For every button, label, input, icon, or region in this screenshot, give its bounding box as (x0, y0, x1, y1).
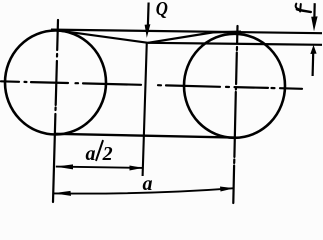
svg-text:a: a (143, 173, 153, 195)
svg-text:2: 2 (102, 143, 113, 165)
svg-text:a: a (86, 143, 96, 165)
svg-text:Q: Q (156, 0, 168, 20)
